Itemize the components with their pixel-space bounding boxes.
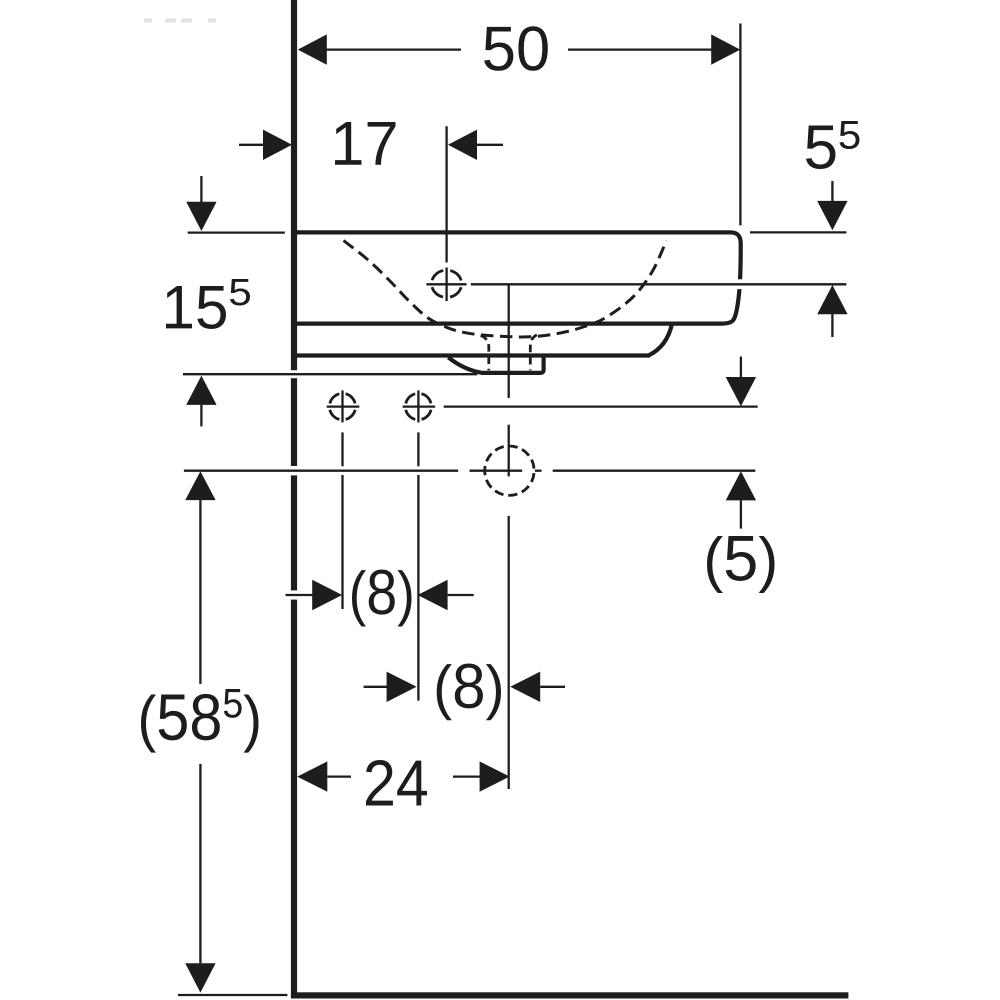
text 17 bbox=[335, 122, 395, 165]
dimension (58.5) vertical bbox=[185, 471, 215, 500]
text (8) second bbox=[437, 663, 501, 720]
extension line basin bottom bbox=[289, 370, 299, 378]
text 15 superscript 5 bbox=[166, 286, 226, 329]
fixing hole left centerline bbox=[341, 432, 343, 466]
faint cropped marks top left bbox=[144, 19, 216, 23]
extension line basin top left bbox=[188, 231, 285, 233]
text (58.5) bbox=[141, 689, 258, 753]
extension line basin top right bbox=[750, 231, 846, 233]
basin top edge, right edge and lower rim edge bbox=[297, 232, 741, 323]
floor extension line left bbox=[178, 994, 287, 996]
arrow down 5.5 bbox=[831, 181, 833, 203]
drain centerline bbox=[508, 285, 510, 398]
extension line right of 50 bbox=[739, 24, 741, 226]
fixing holes level line bbox=[444, 405, 758, 407]
dimension 17 bbox=[239, 144, 264, 146]
wall bbox=[291, 0, 297, 999]
faucet hole bbox=[432, 270, 462, 297]
dimension 50 line bbox=[298, 34, 327, 64]
arrow down 15.5 bbox=[200, 176, 202, 203]
faucet centerline bbox=[445, 126, 447, 262]
text 5 superscript 5 bbox=[806, 125, 836, 168]
dimension (8) second bbox=[364, 686, 388, 688]
text 24 bbox=[366, 760, 427, 806]
text (5) bbox=[707, 536, 775, 593]
fixing hole right bbox=[405, 393, 431, 419]
trap cover notch bbox=[448, 357, 543, 373]
dimension (8) first bbox=[289, 590, 299, 599]
drain circle bbox=[485, 446, 534, 495]
basin underside line bbox=[297, 353, 650, 357]
arrow up 15.5 bbox=[186, 376, 216, 405]
arrow down (5) bbox=[740, 357, 742, 378]
drain pipe hidden dashed right bbox=[530, 335, 537, 370]
arrow up (5) bbox=[726, 471, 756, 500]
dimension 24 bbox=[297, 761, 327, 791]
arrow up 5.5 bbox=[817, 285, 847, 314]
basin apron curve bbox=[649, 325, 672, 356]
faucet level line bbox=[735, 279, 744, 289]
bowl hidden dashed curve bbox=[344, 241, 667, 337]
drain level line bbox=[289, 466, 299, 475]
drain pipe hidden dashed left bbox=[481, 335, 489, 370]
text (8) first bbox=[352, 569, 412, 626]
floor bbox=[291, 992, 848, 998]
fixing hole right centerline bbox=[417, 432, 419, 466]
text 50 bbox=[484, 26, 548, 71]
fixing hole left bbox=[330, 393, 356, 419]
